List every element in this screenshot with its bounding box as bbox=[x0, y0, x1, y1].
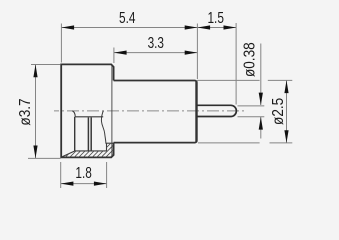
dia2.5 bottom ext bbox=[198, 142, 260, 144]
pin bbox=[197, 105, 237, 116]
dia2.5 dim line bbox=[286, 80, 288, 142]
centerline axis bbox=[54, 110, 246, 112]
dia2.5 bottom arrow bbox=[284, 130, 288, 143]
1.8 left ext bbox=[60, 162, 62, 188]
dimension texts bbox=[17, 8, 288, 181]
dia3.7 dim line bbox=[35, 65, 37, 159]
1.8 left arrow bbox=[61, 182, 74, 186]
dia2.5 top arrow bbox=[284, 80, 288, 93]
dim line 3.3 bbox=[114, 52, 197, 54]
svg-text:ø3.7: ø3.7 bbox=[17, 98, 34, 125]
section bore wall line bbox=[75, 150, 107, 152]
5.4 right arrow bbox=[185, 25, 198, 29]
barrel outline bbox=[114, 81, 197, 143]
arrows bbox=[33, 25, 288, 185]
1.8 dim line bbox=[61, 183, 107, 185]
dia0.38 leader lower bbox=[260, 117, 262, 139]
svg-text:ø0.38: ø0.38 bbox=[242, 42, 259, 77]
svg-text:1.8: 1.8 bbox=[75, 163, 92, 181]
barrel end face thick bbox=[195, 81, 197, 142]
ext 1.5 right bbox=[235, 23, 237, 105]
svg-text:5.4: 5.4 bbox=[119, 8, 136, 26]
pin bottom ext bbox=[238, 116, 265, 118]
pin top ext bbox=[238, 105, 265, 107]
dia3.7 top ext bbox=[31, 64, 61, 66]
break wavy line bbox=[101, 111, 106, 144]
svg-text:3.3: 3.3 bbox=[148, 33, 165, 51]
svg-text:ø2.5: ø2.5 bbox=[270, 98, 287, 125]
3.3 right arrow bbox=[185, 51, 198, 55]
dia2.5 top ext bbox=[197, 79, 260, 81]
socket contact entry radius bbox=[72, 111, 75, 117]
socket bore line bbox=[75, 116, 103, 118]
dia3.7 top arrow bbox=[33, 65, 37, 78]
5.4 left arrow bbox=[61, 25, 74, 29]
1.5 right arrow bbox=[224, 25, 237, 29]
dia0.38 up arrow bbox=[259, 117, 263, 130]
section lead-in chamfer bbox=[62, 151, 75, 157]
1.5 left arrow bbox=[197, 25, 210, 29]
bore inner face bbox=[106, 143, 108, 151]
ext 5.4 left bbox=[60, 24, 62, 63]
dim line 5.4 bbox=[61, 27, 197, 29]
dia3.7 bottom arrow bbox=[33, 146, 37, 159]
dia3.7 bottom ext bbox=[28, 157, 61, 159]
contact left edge bbox=[74, 117, 76, 151]
3.3 left arrow bbox=[114, 51, 127, 55]
ext 5.4/3.3/1.5 shared bbox=[196, 24, 198, 80]
dimension thin lines bbox=[28, 23, 292, 188]
dim line 1.5 bbox=[197, 27, 236, 29]
ext 3.3 left bbox=[113, 48, 115, 64]
svg-text:1.5: 1.5 bbox=[207, 8, 224, 26]
1.8 right ext bbox=[106, 162, 108, 188]
body chamfer edge line bbox=[111, 66, 113, 157]
dia0.38 leader upper bbox=[260, 44, 262, 106]
1.8 right arrow bbox=[94, 182, 107, 186]
body flange outline bbox=[61, 64, 113, 157]
step top line bbox=[107, 142, 114, 144]
dia0.38 down arrow bbox=[259, 93, 263, 106]
contact slot lines bbox=[87, 117, 89, 150]
